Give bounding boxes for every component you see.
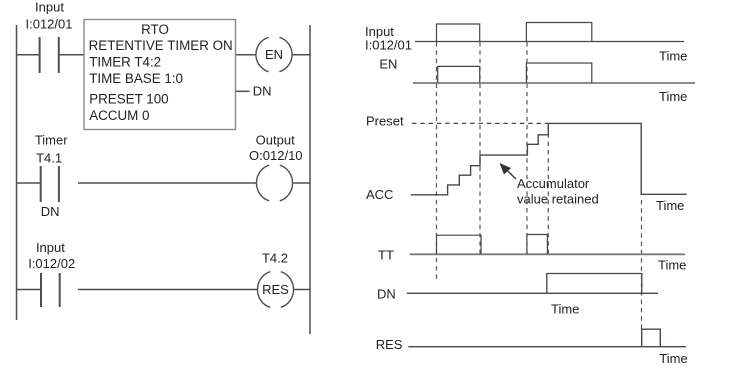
svg-text:Preset: Preset <box>366 114 404 129</box>
svg-text:I:012/01: I:012/01 <box>365 37 412 52</box>
svg-text:PRESET 100: PRESET 100 <box>89 92 168 107</box>
svg-text:Time: Time <box>659 48 687 63</box>
svg-text:I:012/02: I:012/02 <box>28 256 75 271</box>
svg-text:Input: Input <box>36 240 65 255</box>
svg-text:RETENTIVE TIMER ON: RETENTIVE TIMER ON <box>89 38 233 53</box>
svg-text:RES: RES <box>262 282 289 297</box>
svg-text:Accumulator: Accumulator <box>517 176 590 191</box>
svg-text:T4.1: T4.1 <box>36 150 62 165</box>
svg-text:DN: DN <box>41 204 60 219</box>
svg-text:Time: Time <box>656 198 684 213</box>
svg-text:EN: EN <box>379 57 397 72</box>
svg-text:I:012/01: I:012/01 <box>26 17 73 32</box>
svg-text:RTO: RTO <box>141 22 169 37</box>
svg-text:TT: TT <box>378 248 394 263</box>
svg-text:Time: Time <box>551 302 579 317</box>
svg-text:ACC: ACC <box>366 187 393 202</box>
svg-text:Timer: Timer <box>35 132 68 147</box>
svg-text:Time: Time <box>659 351 687 366</box>
svg-text:TIME BASE 1:0: TIME BASE 1:0 <box>89 71 183 86</box>
svg-text:value retained: value retained <box>517 191 599 206</box>
svg-text:TIMER T4:2: TIMER T4:2 <box>89 55 161 70</box>
svg-text:O:012/10: O:012/10 <box>249 148 303 163</box>
svg-text:ACCUM 0: ACCUM 0 <box>89 108 149 123</box>
svg-text:Output: Output <box>256 133 295 148</box>
svg-text:Time: Time <box>659 89 687 104</box>
svg-text:DN: DN <box>377 286 396 301</box>
svg-text:Input: Input <box>35 0 64 15</box>
svg-text:RES: RES <box>376 337 403 352</box>
svg-text:T4.2: T4.2 <box>262 250 288 265</box>
svg-text:DN: DN <box>253 83 272 98</box>
svg-text:EN: EN <box>265 47 283 62</box>
svg-text:Time: Time <box>658 258 686 273</box>
